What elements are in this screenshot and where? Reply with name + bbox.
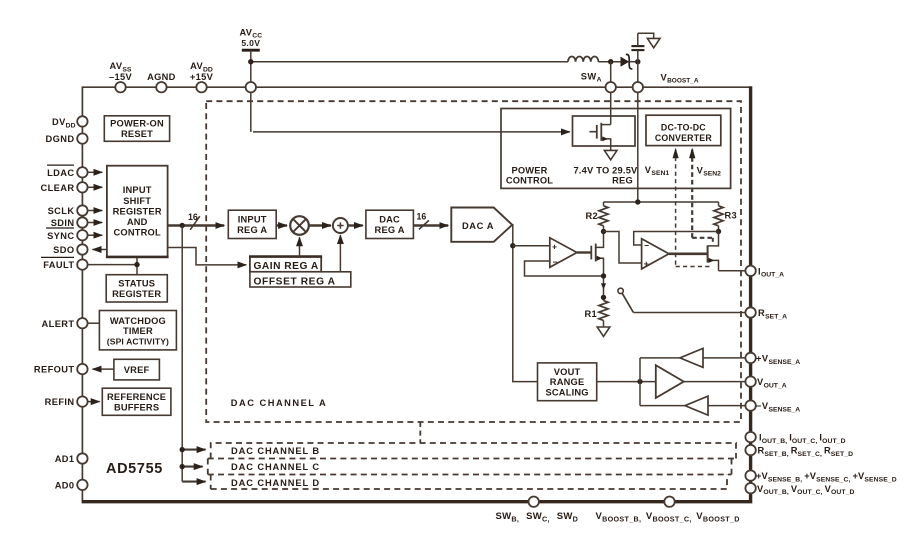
- block POWER CONTROL: [501, 109, 731, 189]
- pin RSET_A: [745, 307, 755, 317]
- node channel C tap: [180, 464, 185, 469]
- wire ISR to GAIN REG A: [168, 248, 247, 265]
- wire bus to DAC CHANNEL B: [182, 449, 205, 451]
- block WATCHDOG TIMER (SPI ACTIVITY): [99, 311, 176, 350]
- pin DGND: [77, 133, 87, 143]
- svg-text:CONTROL: CONTROL: [114, 228, 161, 238]
- wire SDO from input shift register: [93, 249, 107, 251]
- svg-text:REFIN: REFIN: [45, 397, 75, 407]
- svg-text:16: 16: [417, 211, 427, 221]
- pin ALERT: [77, 318, 87, 328]
- svg-text:DC-TO-DC: DC-TO-DC: [661, 123, 706, 133]
- wire 16-bit bus DAC REG A to DAC A: [413, 224, 448, 226]
- svg-text:+: +: [644, 259, 649, 269]
- capacitor C1 boost: [631, 33, 644, 61]
- svg-text:DGND: DGND: [46, 134, 75, 144]
- svg-text:SYNC: SYNC: [47, 231, 74, 241]
- wire ISR to STATUS REGISTER vertical: [136, 257, 138, 275]
- svg-text:TIMER: TIMER: [123, 326, 153, 336]
- dashed link channel A to channel B: [419, 422, 421, 443]
- node VBOOST rail junction: [635, 199, 640, 204]
- pin SDO: [77, 244, 87, 254]
- svg-text:–15V: –15V: [109, 72, 132, 82]
- node output amp input junction: [637, 379, 642, 384]
- pin AD1: [77, 453, 87, 463]
- svg-text:ALERT: ALERT: [42, 319, 75, 329]
- svg-text:AD1: AD1: [55, 454, 75, 464]
- resistor R1: [585, 301, 609, 327]
- svg-text:DAC CHANNEL D: DAC CHANNEL D: [231, 478, 320, 488]
- svg-text:REG: REG: [612, 176, 633, 186]
- transistor Q1: [591, 232, 603, 277]
- wire to +VSENSE buffer: [640, 357, 680, 359]
- pin VBOOST_A terminal: [633, 82, 643, 92]
- wire AVCC down into chip and to POWER CONTROL gate drive: [250, 50, 252, 132]
- svg-text:AD5755: AD5755: [106, 461, 163, 477]
- sense line VSEN2 dashed: [689, 148, 713, 244]
- svg-text:SCLK: SCLK: [48, 206, 75, 216]
- op-amp A2: [642, 239, 669, 269]
- svg-text:REFERENCE: REFERENCE: [107, 392, 166, 402]
- svg-text:CLEAR: CLEAR: [40, 183, 74, 193]
- pin FAULT with overline: [77, 259, 87, 269]
- svg-text:DAC A: DAC A: [462, 221, 494, 231]
- svg-text:INPUT: INPUT: [123, 185, 152, 195]
- ground symbol under R1: [597, 327, 610, 336]
- wire -VSENSE buffer to pin: [708, 405, 745, 407]
- svg-text:−: −: [644, 240, 649, 250]
- resistor R3: [714, 202, 737, 232]
- wire SDIN to input shift register: [88, 222, 102, 224]
- transistor Q2 output: [708, 232, 719, 271]
- wire CLEAR to input shift register: [88, 186, 102, 188]
- node AVCC junction: [248, 59, 253, 64]
- pin VBOOST_B C D: [664, 497, 674, 507]
- wire GAIN REG A to multiplier: [299, 237, 301, 256]
- wire VBOOST rail R2 to R3: [604, 201, 719, 203]
- pin IOUT_B C D: [745, 432, 755, 442]
- node R3 bottom junction: [716, 229, 721, 234]
- wire to -VSENSE buffer: [640, 405, 685, 407]
- wire gate drive into regulator MOSFET box: [253, 131, 570, 133]
- svg-text:POWER: POWER: [511, 166, 547, 176]
- wire LDAC to input shift register: [88, 171, 102, 173]
- svg-text:AND: AND: [127, 217, 148, 227]
- wire R3 node to A2 negative input: [634, 232, 719, 246]
- svg-text:DAC CHANNEL A: DAC CHANNEL A: [231, 398, 327, 408]
- svg-text:SDIN: SDIN: [51, 218, 75, 228]
- wire INPUT REG A to multiplier: [276, 224, 287, 226]
- pin AGND terminal: [156, 82, 166, 92]
- block VOUT RANGE SCALING: [538, 363, 597, 401]
- pin REFOUT: [77, 364, 87, 374]
- svg-text:7.4V TO 29.5V: 7.4V TO 29.5V: [574, 166, 639, 176]
- pin RSET_B C D: [745, 445, 755, 455]
- svg-text:R2: R2: [586, 211, 598, 221]
- wire output amp to VOUT_A pin: [684, 381, 746, 383]
- pin AVDD terminal: [196, 82, 206, 92]
- wire A1 feedback from source node: [525, 261, 604, 276]
- svg-text:+15V: +15V: [190, 72, 214, 82]
- wire FAULT to status register junction: [88, 264, 137, 266]
- wire capacitor to ground: [638, 33, 654, 38]
- pin SYNC with overline: [77, 230, 87, 240]
- svg-text:WATCHDOG: WATCHDOG: [110, 316, 166, 326]
- pin IOUT_A: [745, 266, 755, 276]
- wire inductor to diode: [598, 61, 620, 63]
- wire ALERT to watchdog timer: [88, 322, 99, 324]
- svg-text:DAC: DAC: [379, 215, 400, 225]
- block STATUS REGISTER: [106, 275, 167, 302]
- svg-text:LDAC: LDAC: [47, 168, 74, 178]
- svg-text:INPUT: INPUT: [238, 215, 267, 225]
- pin AD0: [77, 480, 87, 490]
- sense line VSEN1 dashed: [673, 148, 711, 267]
- wire switch to RSET_A pin: [633, 312, 745, 314]
- svg-text:DAC CHANNEL C: DAC CHANNEL C: [231, 462, 320, 472]
- wire VBOOST_A node down through POWER CONTROL to R2/R3 rail: [637, 62, 639, 202]
- bus slash 16 label: [188, 212, 200, 230]
- wire SCLK to input shift register: [88, 210, 102, 212]
- svg-text:VOUT: VOUT: [554, 367, 581, 377]
- pin +VSENSE_A: [745, 353, 755, 363]
- op-amp A1: [550, 238, 577, 267]
- svg-text:SWB, SWC, SWD: SWB, SWC, SWD: [496, 511, 579, 523]
- wire SYNC to input shift register: [88, 234, 102, 236]
- pin AVCC terminal: [246, 82, 256, 92]
- wire adder to DAC REG A: [348, 224, 363, 226]
- ground symbol top-right: [647, 38, 660, 47]
- chip outline AD5755 package boundary: [82, 86, 751, 502]
- wire junction to sense buffers vertical: [639, 358, 641, 406]
- svg-text:16: 16: [188, 212, 198, 222]
- node channel B tap: [180, 447, 185, 452]
- wire VOUT RANGE SCALING to output amp: [597, 381, 656, 383]
- block INPUT REG A: [228, 210, 276, 238]
- svg-text:AGND: AGND: [147, 72, 176, 82]
- transistor Q3 boost switch: [590, 123, 611, 151]
- svg-text:−: −: [553, 257, 558, 267]
- svg-text:REGISTER: REGISTER: [113, 206, 162, 216]
- wire diode to VBOOST node: [629, 61, 638, 63]
- node bus tap junction: [180, 223, 185, 228]
- block GAIN REG A: [249, 257, 322, 273]
- node DAC A output junction: [510, 243, 515, 248]
- bus slash 16 label second: [417, 211, 429, 229]
- pin VOUT_B C D: [745, 483, 755, 493]
- buffer B2 -VSENSE: [685, 396, 708, 415]
- node R2 bottom junction: [601, 229, 606, 234]
- svg-text:R1: R1: [585, 309, 597, 319]
- svg-text:(SPI ACTIVITY): (SPI ACTIVITY): [107, 336, 169, 346]
- block VREF: [114, 359, 159, 380]
- svg-text:POWER-ON: POWER-ON: [110, 118, 164, 128]
- svg-text:FAULT: FAULT: [43, 260, 74, 270]
- wire R2 node to A2 positive input: [604, 232, 642, 264]
- wire multiplier to adder: [309, 224, 331, 226]
- wire +VSENSE buffer to pin: [703, 357, 745, 359]
- block OFFSET REG A: [250, 272, 351, 288]
- svg-text:CONVERTER: CONVERTER: [655, 133, 712, 143]
- current direction arrow: [601, 283, 606, 289]
- DAC CHANNEL B dashed box: [211, 443, 736, 459]
- svg-text:SDO: SDO: [53, 245, 74, 255]
- svg-text:SCALING: SCALING: [545, 387, 588, 397]
- svg-text:CONTROL: CONTROL: [506, 176, 553, 186]
- svg-text:STATUS: STATUS: [118, 278, 155, 288]
- svg-text:GAIN REG A: GAIN REG A: [254, 261, 319, 272]
- svg-text:R3: R3: [725, 211, 737, 221]
- buffer B1 +VSENSE: [680, 348, 703, 367]
- resistor R2: [586, 202, 609, 232]
- pin REFIN: [77, 396, 87, 406]
- regulator MOSFET box: [573, 116, 636, 146]
- wire VREF to REFOUT: [93, 368, 114, 370]
- ground symbol under Q3: [604, 150, 617, 159]
- svg-text:REG A: REG A: [237, 225, 267, 235]
- diode D1 Schottky: [621, 54, 633, 69]
- AVCC supply bar 5.0V: [239, 27, 262, 50]
- pin LDAC with overline: [77, 167, 87, 177]
- wire source node down to R1: [603, 276, 605, 301]
- svg-text:+: +: [552, 242, 557, 252]
- wire bus to DAC CHANNEL D: [182, 481, 205, 483]
- DAC CHANNEL A dashed boundary box: [206, 101, 741, 422]
- block DC-TO-DC CONVERTER: [646, 115, 721, 145]
- multiplier gain element: [290, 216, 309, 235]
- output amplifier A3: [656, 365, 684, 398]
- svg-text:5.0V: 5.0V: [241, 38, 260, 48]
- pin SW_B C D: [529, 497, 539, 507]
- svg-text:AD0: AD0: [55, 480, 75, 490]
- block INPUT SHIFT REGISTER AND CONTROL U1: [106, 166, 169, 257]
- wire bus tap down to DAC channels B C D: [181, 226, 183, 482]
- wire 16-bit bus ISR to INPUT REG A: [168, 224, 225, 227]
- pin DVDD: [77, 116, 87, 126]
- svg-text:RESET: RESET: [121, 129, 153, 139]
- DAC CHANNEL D dashed box: [208, 475, 732, 490]
- block POWER-ON RESET: [104, 116, 169, 142]
- block DAC REG A: [366, 210, 414, 238]
- pin +VSENSE_B C D: [745, 470, 755, 480]
- svg-text:DAC CHANNEL B: DAC CHANNEL B: [231, 446, 320, 456]
- pin SW_A terminal: [606, 82, 616, 92]
- node FAULT junction: [134, 262, 139, 267]
- pin CLEAR: [77, 182, 87, 192]
- pin VOUT_A: [745, 376, 755, 386]
- node A1 feedback junction: [601, 273, 606, 278]
- DAC CHANNEL C dashed box: [208, 459, 736, 475]
- wire A2 output to Q2 gate: [669, 253, 708, 256]
- adder offset element: [333, 218, 348, 233]
- transistor Q1 gate drive: [577, 251, 591, 253]
- wire OFFSET REG A to adder: [339, 235, 341, 272]
- svg-text:SHIFT: SHIFT: [123, 196, 151, 206]
- pin SDIN: [77, 217, 87, 227]
- svg-text:VREF: VREF: [124, 365, 150, 375]
- svg-text:REFOUT: REFOUT: [34, 365, 75, 375]
- wire AVCC rail to inductor: [251, 61, 568, 63]
- wire SW_A node down to internal MOSFET drain: [610, 62, 612, 125]
- node R1 top junction: [601, 295, 606, 300]
- wire bus to DAC CHANNEL C: [182, 466, 202, 468]
- node SW_A junction: [608, 59, 613, 64]
- wire DAC A output down to VOUT RANGE SCALING: [512, 225, 537, 382]
- wire Q2 source to IOUT_A pin: [719, 270, 746, 272]
- svg-text:OFFSET REG A: OFFSET REG A: [254, 276, 336, 287]
- svg-text:REGISTER: REGISTER: [112, 289, 161, 299]
- svg-text:BUFFERS: BUFFERS: [114, 402, 159, 412]
- inductor L1 boost: [568, 57, 598, 62]
- wire to amplifier A1 positive input: [513, 245, 550, 247]
- wire REFIN to reference buffers: [88, 401, 100, 403]
- pin AVSS terminal: [115, 82, 125, 92]
- pin -VSENSE_A: [745, 400, 755, 410]
- svg-text:RANGE: RANGE: [550, 377, 585, 387]
- switch SW RSET: [618, 288, 634, 312]
- node VBOOST_A junction: [635, 59, 640, 64]
- block REFERENCE BUFFERS: [102, 388, 171, 415]
- svg-text:REG A: REG A: [375, 225, 405, 235]
- pin SCLK: [77, 205, 87, 215]
- DAC A converter block: [451, 208, 512, 242]
